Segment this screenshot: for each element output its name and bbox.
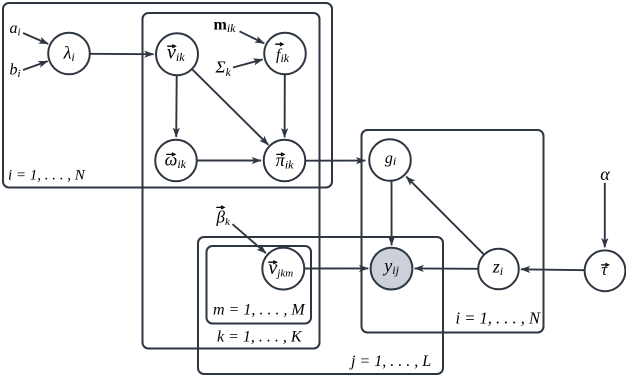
svg-text:i = 1, . . . , N: i = 1, . . . , N: [8, 168, 86, 184]
node y_ij (observed, shaded): [371, 248, 413, 290]
wire omega_ik to pi_ik: [197, 160, 261, 162]
wire a_i to lambda_i: [23, 33, 48, 44]
plate label j = 1,...,L: [349, 353, 431, 370]
plate i=1..N (right): [362, 130, 544, 333]
label b_i: [10, 62, 21, 81]
node omega_ik: [155, 140, 197, 182]
node v_ik: [156, 33, 198, 75]
svg-text:α: α: [600, 164, 610, 184]
svg-text:ai: ai: [10, 20, 21, 39]
wire g_i to y_ij: [391, 181, 393, 245]
label a_i: [10, 20, 21, 39]
svg-text:Σk: Σk: [215, 58, 232, 79]
wire pi_ik to g_i: [305, 160, 365, 162]
svg-text:i = 1, . . . , N: i = 1, . . . , N: [456, 309, 541, 328]
plate label k = 1,...,K: [217, 329, 303, 346]
wire alpha to tau: [604, 183, 606, 247]
svg-text:k = 1, . . . , K: k = 1, . . . , K: [217, 329, 303, 346]
wire m_ik to f_ik: [240, 31, 265, 43]
wire z_i to g_i: [406, 177, 485, 256]
node v_jkm: [262, 248, 304, 290]
wire v_jkm to y_ij: [305, 267, 369, 269]
wire lambda_i to v_ik: [90, 53, 154, 55]
wire f_ik to pi_ik: [284, 74, 286, 137]
wire tau to z_i: [521, 268, 585, 271]
svg-text:βk: βk: [216, 208, 231, 229]
plate j=1..L: [198, 237, 443, 374]
plate i=1..N (top-left): [3, 3, 332, 188]
plate k=1..K: [143, 13, 320, 349]
label beta_k (vector): [216, 206, 231, 228]
node g_i: [369, 139, 411, 181]
svg-text:mik: mik: [214, 17, 237, 36]
wire v_ik to omega_ik: [175, 76, 178, 137]
label m_ik (bold): [214, 17, 237, 36]
node pi_ik: [264, 140, 306, 182]
plate label i = 1,...,N (top-left plate): [8, 168, 86, 184]
label Sigma_k: [215, 58, 232, 79]
wire Sigma_k to f_ik: [233, 59, 263, 67]
plate label m = 1,...,M: [213, 302, 306, 319]
wire v_ik to pi_ik: [192, 69, 269, 145]
plate m=1..M: [207, 246, 312, 324]
node tau (vector): [585, 250, 626, 291]
svg-text:bi: bi: [10, 62, 21, 81]
node z_i: [478, 249, 519, 290]
svg-text:m = 1, . . . , M: m = 1, . . . , M: [213, 302, 306, 319]
node lambda_i: [48, 33, 90, 75]
wire z_i to y_ij: [415, 267, 479, 269]
label alpha: [600, 164, 610, 184]
svg-text:j = 1, . . . , L: j = 1, . . . , L: [349, 353, 431, 370]
plate label i = 1,...,N (right plate): [456, 309, 541, 328]
wire b_i to lambda_i: [23, 61, 48, 70]
wire beta_k to v_jkm: [233, 224, 266, 253]
node f_ik: [264, 33, 306, 75]
